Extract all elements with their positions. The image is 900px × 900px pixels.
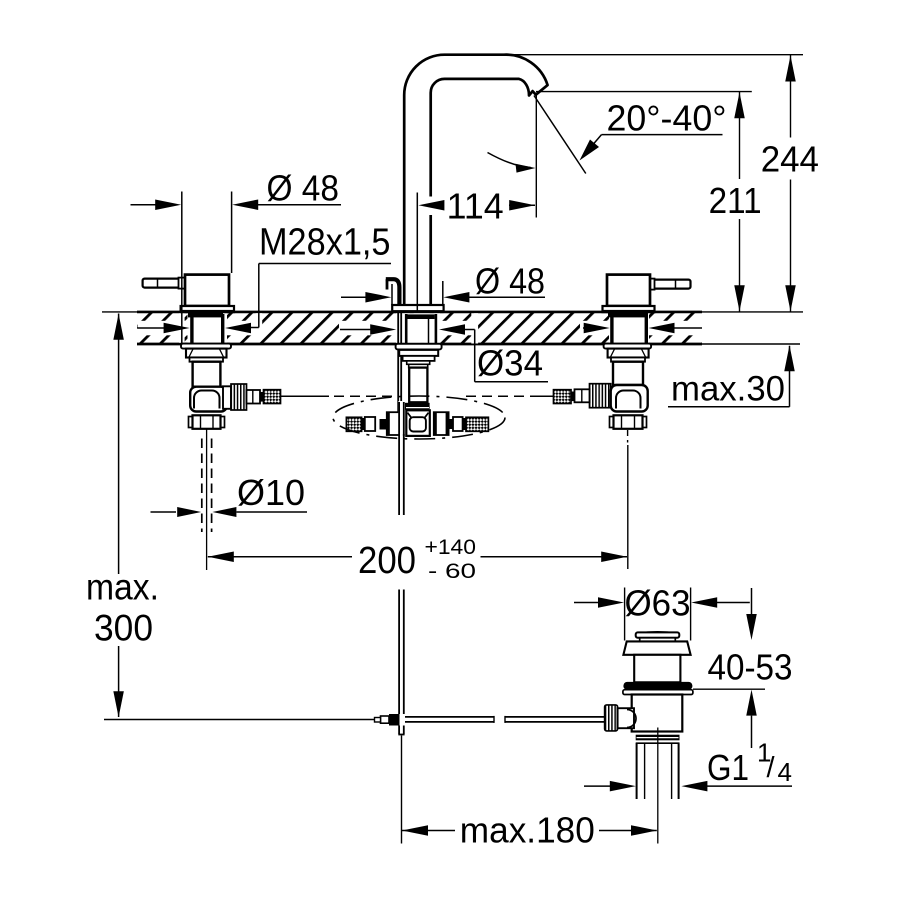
hatch cutout center valve bbox=[396, 313, 440, 343]
waste neck bbox=[634, 655, 680, 683]
centre tee dark collar bbox=[405, 403, 430, 410]
svg-text:G1: G1 bbox=[707, 747, 749, 788]
dimension G1 line bbox=[584, 785, 610, 787]
pop-up rod white underlay at tee bbox=[398, 401, 404, 437]
swivel arc arrow bbox=[488, 153, 532, 168]
centre tee left braided hose bbox=[346, 417, 361, 431]
svg-text:Ø34: Ø34 bbox=[477, 343, 543, 384]
dimension 114 arrows bbox=[418, 200, 444, 211]
left valve hose hex nut bbox=[223, 386, 231, 409]
right valve locknut lower bbox=[611, 358, 645, 362]
centre tee body bbox=[406, 410, 430, 436]
outlet vertical reference line bbox=[535, 94, 537, 218]
left valve threaded shank bbox=[190, 314, 193, 344]
left valve thread dimension arrows bbox=[138, 327, 165, 329]
left valve washer bbox=[181, 344, 231, 349]
svg-text:300: 300 bbox=[94, 607, 153, 649]
right handle lever hub bbox=[648, 279, 655, 290]
right valve elbow bbox=[611, 385, 648, 412]
svg-text:Ø63: Ø63 bbox=[625, 583, 691, 624]
left valve braided hose bbox=[264, 390, 281, 404]
spout body bbox=[404, 55, 547, 306]
svg-text:Ø10: Ø10 bbox=[237, 472, 305, 513]
dimension max300 line bbox=[118, 314, 120, 575]
countertop top edge extension left bbox=[102, 311, 137, 313]
dimension 40-53 line lower bbox=[746, 690, 757, 716]
waste thread block bbox=[636, 735, 680, 741]
waste flange cone bbox=[623, 641, 690, 654]
right valve thread dimension arrows bbox=[583, 327, 585, 329]
right valve hose stub bbox=[575, 389, 590, 402]
stream angle reference line bbox=[534, 96, 586, 174]
dimension d48 centre line bbox=[341, 296, 366, 298]
svg-text:+140: +140 bbox=[425, 536, 477, 559]
hatch cutout right valve bbox=[609, 313, 649, 343]
left valve body cylinder bbox=[193, 362, 221, 387]
svg-text:20°-40°: 20°-40° bbox=[607, 98, 727, 139]
centre valve neck bbox=[407, 361, 430, 364]
waste cap bbox=[637, 632, 678, 634]
label M28x15 leader bbox=[259, 263, 391, 265]
svg-text:max.: max. bbox=[86, 565, 159, 607]
dimension 200 line bbox=[208, 552, 234, 563]
left handle lever hub bbox=[179, 278, 186, 289]
left valve centreline bbox=[206, 429, 208, 571]
svg-text:244: 244 bbox=[761, 139, 819, 180]
waste knob connector bbox=[618, 708, 634, 728]
waste body bbox=[632, 695, 683, 732]
left valve locknut bbox=[186, 349, 227, 358]
right valve hose knurled nut bbox=[590, 384, 611, 408]
right valve threaded shank bbox=[610, 314, 613, 344]
right valve body cylinder bbox=[613, 362, 643, 385]
hatch cutout left valve bbox=[188, 313, 228, 343]
left handle body bbox=[185, 275, 229, 306]
right valve centreline stub bbox=[627, 430, 629, 443]
flexible connection ellipse bbox=[333, 396, 505, 439]
centre tee right hex bbox=[434, 412, 449, 435]
countertop bottom edge extension right bbox=[702, 343, 800, 345]
left valve hose stub bbox=[247, 390, 261, 404]
left handle lever bbox=[143, 279, 184, 288]
dimension d63 line bbox=[574, 602, 599, 604]
waste rubber seal ring bbox=[623, 682, 692, 690]
left valve locknut lower bbox=[190, 358, 224, 362]
left valve base plate bbox=[181, 306, 234, 312]
centre valve locknut bbox=[399, 350, 438, 356]
svg-text:Ø 48: Ø 48 bbox=[267, 168, 340, 209]
hatch halo center dim arrows bbox=[339, 321, 397, 336]
hatch halo left dim arrows bbox=[138, 321, 188, 336]
centre valve cylinder bbox=[409, 368, 427, 403]
dimension d48 centre ext lines bbox=[391, 284, 393, 305]
right valve bottom nut bbox=[610, 417, 614, 428]
countertop bottom edge bbox=[137, 343, 702, 346]
centre valve bore dimension arrows bbox=[340, 329, 371, 331]
dimension d48 left line bbox=[131, 204, 157, 206]
centre tee left wing fittings bbox=[380, 419, 387, 430]
countertop top edge bbox=[137, 311, 702, 314]
hose centreline dash-dot bbox=[281, 395, 329, 397]
dimension 114 extension line centre tube bbox=[416, 193, 418, 311]
dimension d63 ext lines bbox=[624, 588, 626, 641]
centre tee left hex bbox=[387, 412, 402, 435]
dimension 200 right ext line bbox=[627, 445, 629, 569]
right handle body bbox=[607, 275, 650, 306]
left valve bottom nut bbox=[189, 417, 193, 428]
svg-text:- 60: - 60 bbox=[428, 560, 476, 583]
pop-up rod extension line bbox=[401, 736, 403, 844]
max300 bottom extension line bbox=[104, 719, 375, 721]
centre flange plate bbox=[392, 305, 443, 311]
centre valve washer bbox=[396, 344, 442, 350]
right valve locknut bbox=[608, 349, 649, 358]
dimension max180 line bbox=[402, 825, 428, 836]
svg-text:M28x1,5: M28x1,5 bbox=[259, 222, 391, 264]
waste seal washer bbox=[623, 690, 693, 695]
svg-text:40-53: 40-53 bbox=[708, 647, 793, 688]
pop-up rod clamp bbox=[389, 714, 400, 726]
left valve elbow bbox=[190, 387, 227, 412]
dimension 114 halo bbox=[421, 197, 434, 216]
pop-up rod through deck bbox=[397, 313, 399, 434]
horizontal actuating rod bbox=[405, 716, 494, 718]
hatch halo diam34 leader bbox=[471, 313, 478, 343]
label d34 leader bbox=[474, 330, 476, 382]
svg-text:211: 211 bbox=[709, 180, 762, 221]
dimension d48 left ext lines bbox=[181, 192, 183, 344]
svg-text:/: / bbox=[767, 752, 776, 784]
hatch halo M28 leader bbox=[256, 313, 263, 330]
centre valve in-deck body bbox=[405, 314, 408, 344]
dimension d10 arrows bbox=[151, 511, 177, 513]
centre tee right wing fittings bbox=[449, 419, 453, 429]
waste centreline bbox=[657, 728, 659, 844]
dimension 40-53 ext line bbox=[693, 688, 765, 690]
countertop top edge extension right bbox=[702, 311, 803, 313]
svg-text:4: 4 bbox=[778, 757, 792, 787]
waste tailpipe bbox=[636, 743, 638, 799]
label max30 leader bbox=[668, 406, 790, 408]
left valve rod hole dashed lines bbox=[201, 439, 203, 533]
svg-text:Ø 48: Ø 48 bbox=[475, 261, 545, 302]
right valve base plate bbox=[603, 306, 655, 312]
extension line spout top bbox=[509, 54, 803, 56]
pop-up rod knob above deck bbox=[386, 279, 389, 289]
label 20-40 leader bbox=[602, 134, 723, 136]
right handle lever bbox=[649, 280, 691, 289]
svg-text:max.180: max.180 bbox=[460, 810, 595, 851]
svg-text:max.30: max.30 bbox=[671, 369, 785, 409]
extension line spout outlet level bbox=[536, 91, 752, 93]
right valve washer bbox=[604, 344, 652, 349]
pop-up rod lower tip bbox=[398, 726, 400, 735]
svg-text:114: 114 bbox=[447, 185, 504, 226]
hatch halo right valve dim arrows bbox=[580, 321, 610, 336]
dimension 211 line bbox=[739, 92, 741, 179]
right valve braided hose bbox=[554, 390, 572, 404]
pop-up rod below tee bbox=[398, 434, 400, 515]
left valve thread collar dark band bbox=[188, 313, 223, 318]
centre tee right braided hose bbox=[466, 417, 488, 431]
hatch halo left ext line bbox=[179, 313, 185, 343]
left valve hose knurled nut bbox=[231, 384, 247, 410]
waste rod knob knurled bbox=[605, 705, 618, 731]
countertop hatched section bbox=[137, 313, 702, 344]
dimension 244 line bbox=[790, 55, 792, 138]
right valve thread collar dark band bbox=[608, 313, 648, 318]
dimension 40-53 line upper bbox=[751, 588, 753, 614]
svg-text:200: 200 bbox=[358, 540, 416, 582]
